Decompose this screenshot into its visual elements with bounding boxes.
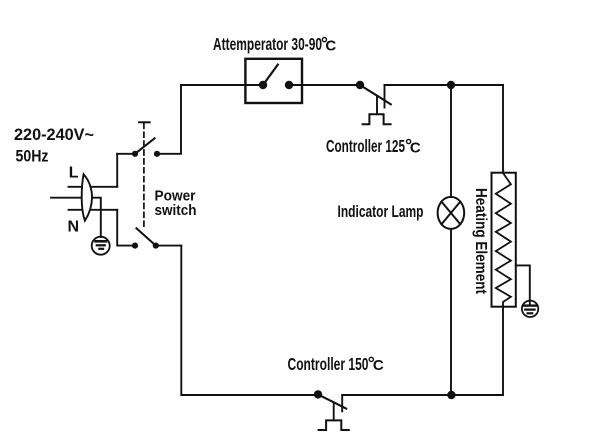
power switch pole 1 arm xyxy=(135,138,155,154)
svg-text:Indicator Lamp: Indicator Lamp xyxy=(338,203,424,221)
power switch pole 2 arm xyxy=(136,228,155,245)
svg-text:L: L xyxy=(69,165,79,182)
wire: heating element bottom drop xyxy=(502,307,504,395)
wire: bottom bus left segment xyxy=(181,246,318,395)
junction node top (lamp branch) xyxy=(447,81,455,89)
wire: L pin to pole 1 xyxy=(117,153,135,155)
wire: heating element top drop xyxy=(502,85,504,173)
controller 150 bimetal bracket xyxy=(319,420,349,430)
attemperator switch arm xyxy=(263,65,278,85)
power switch pole 2 to bottom riser xyxy=(156,245,182,247)
svg-text:50Hz: 50Hz xyxy=(16,148,49,166)
attemperator contact right xyxy=(285,81,293,89)
heating element box xyxy=(492,173,516,307)
attemperator A1 box xyxy=(245,59,302,103)
svg-text:C: C xyxy=(325,37,336,54)
controller 125 switch arm xyxy=(360,85,391,104)
mains plug lens xyxy=(82,174,92,221)
wire: N pin to pole 2 xyxy=(117,210,135,246)
wire: controller 125 to heating element corner xyxy=(385,84,504,86)
svg-text:C: C xyxy=(373,357,384,374)
svg-text:switch: switch xyxy=(155,202,197,219)
controller 125 bimetal bracket xyxy=(363,114,391,124)
wire: lamp branch upper xyxy=(450,85,452,197)
controller 125 contact dot xyxy=(356,81,364,89)
junction node bottom (lamp branch) xyxy=(447,391,455,399)
controller 125 actuator stem xyxy=(376,96,378,114)
attemperator contact left xyxy=(259,81,267,89)
svg-text:Controller 125: Controller 125 xyxy=(326,136,405,156)
power switch coupling T handle xyxy=(139,121,150,123)
L pin line xyxy=(69,186,118,188)
svg-text:Attemperator 30-90: Attemperator 30-90 xyxy=(213,34,322,54)
power switch pole 1 riser xyxy=(157,85,181,154)
earth electrode right xyxy=(522,301,538,317)
heating element zigzag xyxy=(496,173,511,307)
wire: lamp branch lower xyxy=(450,229,452,395)
svg-text:N: N xyxy=(68,219,80,236)
earth electrode left xyxy=(92,237,110,255)
controller 150 fixed contact xyxy=(341,395,343,411)
controller 150 contact dot xyxy=(314,390,322,398)
svg-text:Controller 150: Controller 150 xyxy=(288,354,369,374)
controller 150 switch arm xyxy=(318,394,346,408)
N pin line xyxy=(69,209,118,211)
indicator lamp xyxy=(438,197,465,229)
power switch coupling dashed link xyxy=(143,123,145,228)
svg-text:C: C xyxy=(410,139,421,156)
wire: into attemperator box to left contact xyxy=(246,84,264,86)
wire: top bus from switch riser to attemperator box xyxy=(181,84,246,86)
svg-text:220-240V~: 220-240V~ xyxy=(14,126,94,144)
controller 125 fixed contact xyxy=(384,85,386,108)
E pin line xyxy=(51,198,101,237)
wire: earth tap from element xyxy=(516,265,530,300)
power switch pole 2 dots xyxy=(132,243,138,249)
controller 150 actuator stem xyxy=(333,403,335,421)
svg-text:Heating Element: Heating Element xyxy=(472,188,489,295)
wire: attemperator right contact to controller 125 contact xyxy=(289,84,360,86)
wire: bottom bus right segment xyxy=(342,394,503,396)
power switch pole 1 dots xyxy=(132,151,138,157)
